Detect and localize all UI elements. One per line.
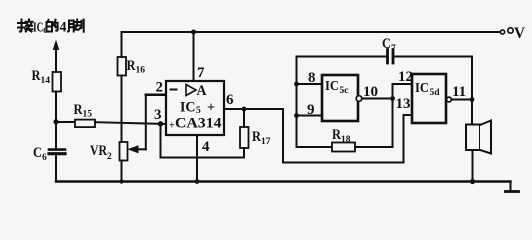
- resistor R14: [53, 72, 62, 92]
- speaker: [466, 125, 480, 151]
- svg-text:2: 2: [156, 80, 164, 96]
- gate IC5d output bubble pin11: [447, 97, 452, 102]
- char 的: [47, 20, 58, 32]
- potentiometer VR2 body: [120, 142, 128, 161]
- junction node A pin9: [294, 113, 299, 118]
- gates top wire with C7: [297, 56, 387, 58]
- svg-text:IC: IC: [33, 21, 44, 36]
- svg-text:IC: IC: [180, 100, 196, 116]
- VR2 wiper arrow: [138, 148, 146, 150]
- node junction R14/R15/C6: [53, 119, 58, 124]
- junction dot rail to pin7: [191, 30, 196, 35]
- resistor R15: [56, 121, 75, 123]
- junction pin6 to R17: [242, 107, 247, 112]
- op-amp triangle symbol: [186, 85, 196, 96]
- wire R16 to VR2 top: [121, 76, 123, 143]
- capacitor C7: [386, 50, 389, 64]
- svg-text:3: 3: [154, 107, 162, 123]
- svg-text:4: 4: [202, 139, 210, 155]
- gate IC5d box: [412, 74, 446, 123]
- wire rail to op-amp pin7: [193, 32, 195, 81]
- svg-text:14: 14: [41, 76, 51, 86]
- wire R15 to op-amp pin3: [95, 122, 166, 124]
- svg-text:VR: VR: [90, 143, 107, 159]
- svg-text:IC: IC: [415, 81, 429, 96]
- svg-text:5d: 5d: [430, 88, 441, 98]
- svg-text:4: 4: [60, 20, 67, 36]
- wire C7 right vertical to speaker: [471, 57, 473, 125]
- terminal circle V: [500, 30, 504, 34]
- svg-text:V: V: [514, 25, 525, 42]
- wire pin6 output: [224, 108, 283, 110]
- svg-text:11: 11: [452, 84, 466, 100]
- svg-text:2: 2: [107, 152, 112, 162]
- main top rail: [122, 31, 501, 33]
- wire pin6 down to gate path: [283, 109, 412, 163]
- wire pin12: [393, 83, 413, 85]
- wire wiper to op-amp pin2: [145, 95, 147, 150]
- svg-text:13: 13: [396, 96, 411, 112]
- svg-text:9: 9: [307, 102, 315, 118]
- wire VR2 bottom to rail: [121, 161, 123, 182]
- svg-text:5: 5: [196, 106, 201, 116]
- svg-text:6: 6: [226, 92, 234, 108]
- gate IC5c box: [322, 75, 358, 121]
- svg-text:10: 10: [363, 84, 378, 100]
- wire node B vertical: [392, 84, 394, 147]
- wire op-amp pin4 to rail: [196, 135, 198, 182]
- svg-text:18: 18: [341, 135, 351, 145]
- resistor R16: [118, 57, 127, 76]
- ground symbol: [510, 182, 512, 192]
- ground rail: [56, 180, 511, 182]
- svg-text:8: 8: [308, 70, 316, 86]
- wire node to C6: [55, 122, 57, 149]
- svg-text:5c: 5c: [340, 86, 349, 96]
- node A left vertical: [296, 57, 298, 148]
- svg-text:17: 17: [261, 137, 271, 147]
- op-amp U IC5 CA314 box: [166, 81, 224, 135]
- svg-text:IC: IC: [325, 79, 339, 94]
- svg-text:CA314: CA314: [175, 116, 222, 132]
- wire C6 to ground rail: [55, 155, 57, 181]
- wire R18 to node B: [355, 146, 393, 148]
- svg-text:A: A: [197, 83, 207, 99]
- svg-text:C: C: [33, 145, 42, 161]
- gate IC5c output bubble pin10: [356, 96, 362, 102]
- node label text 接IC6的4脚: [18, 20, 84, 36]
- wire rail corner down to R16: [121, 32, 123, 57]
- wire speaker to rail: [472, 150, 474, 182]
- svg-text:7: 7: [391, 44, 396, 54]
- svg-text:16: 16: [136, 66, 146, 76]
- svg-text:C: C: [382, 36, 391, 52]
- svg-text:6: 6: [42, 153, 47, 163]
- capacitor C6: [49, 148, 65, 151]
- resistor R17: [243, 109, 245, 127]
- wire pin8: [297, 83, 323, 85]
- svg-text:15: 15: [83, 110, 93, 120]
- resistor R18: [297, 146, 333, 148]
- junction pin3 feedback: [158, 121, 163, 126]
- wire R17 bottom feedback to pin3: [161, 124, 245, 158]
- op-amp minus sign: [171, 89, 177, 91]
- wire R14 to node A1: [55, 92, 57, 122]
- junction node A pin8: [294, 82, 299, 87]
- svg-text:+: +: [207, 101, 215, 116]
- char 接: [18, 20, 33, 32]
- svg-text:7: 7: [197, 65, 205, 81]
- arrow to IC6 pin 4: [55, 49, 57, 72]
- char 脚: [68, 20, 84, 32]
- wire pin9: [297, 115, 323, 117]
